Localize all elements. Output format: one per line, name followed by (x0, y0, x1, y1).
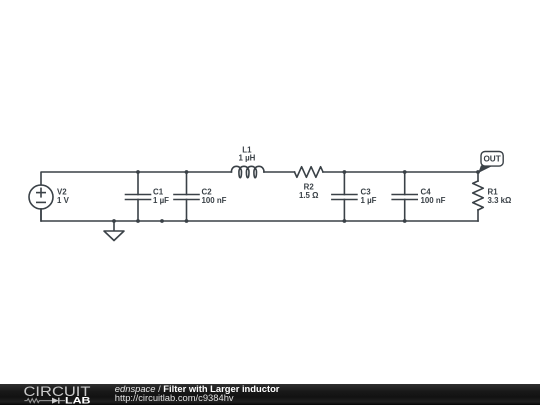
svg-text:100 nF: 100 nF (202, 196, 227, 205)
capacitor C4 (392, 172, 417, 221)
V2 minus sign (37, 201, 45, 203)
svg-text:OUT: OUT (483, 155, 500, 164)
resistor R2 zigzag (295, 167, 324, 178)
node dot C2 bottom (185, 219, 189, 223)
svg-text:100 nF: 100 nF (421, 196, 446, 205)
node dot mid bottom (160, 219, 164, 223)
svg-text:LAB: LAB (65, 395, 91, 405)
svg-text:3.3 kΩ: 3.3 kΩ (488, 196, 512, 205)
ground symbol (104, 221, 124, 241)
capacitor C3 (332, 172, 357, 221)
junction dots (112, 170, 480, 223)
footer logo diode (52, 398, 59, 404)
wire bottom rail (41, 209, 478, 221)
footer logo resistor zigzag (24, 399, 52, 403)
wire: R2 to OUT node and down to R1 (323, 172, 478, 181)
voltage source V2 circle (29, 185, 53, 209)
svg-text:1 V: 1 V (57, 196, 70, 205)
component labels (57, 146, 511, 206)
node dot C4 top (403, 170, 407, 174)
svg-text:C4: C4 (421, 188, 432, 197)
capacitor C2 (174, 172, 199, 221)
OUT flag (478, 152, 503, 174)
svg-text:R2: R2 (304, 183, 315, 192)
node dot C3 bottom (343, 219, 347, 223)
svg-text:C2: C2 (202, 188, 213, 197)
resistor R1 zigzag (473, 181, 484, 210)
node dot C2 top (185, 170, 189, 174)
svg-text:1 µH: 1 µH (238, 154, 255, 163)
node dot ground (112, 219, 116, 223)
wire: R1 bottom lead (477, 210, 479, 221)
inductor L1 coil (231, 166, 264, 178)
svg-text:1 µF: 1 µF (361, 196, 377, 205)
wire V2 bottom stem (40, 209, 42, 221)
svg-text:1 µF: 1 µF (153, 196, 169, 205)
node dot C1 top (136, 170, 140, 174)
node dot C4 bottom (403, 219, 407, 223)
wire: L1 to R2 (264, 171, 295, 173)
svg-text:V2: V2 (57, 188, 67, 197)
footer bar (0, 384, 540, 405)
svg-text:C1: C1 (153, 188, 164, 197)
node dot C3 top (343, 170, 347, 174)
svg-text:C3: C3 (361, 188, 372, 197)
svg-text:R1: R1 (488, 188, 499, 197)
svg-text:1.5 Ω: 1.5 Ω (299, 191, 319, 200)
V2 plus sign (37, 192, 45, 194)
node dot C1 bottom (136, 219, 140, 223)
capacitor C1 (126, 172, 151, 221)
node dot OUT (476, 170, 480, 174)
wire top: V2 to L1 (41, 172, 231, 185)
svg-text:http://circuitlab.com/c9384hv: http://circuitlab.com/c9384hv (115, 392, 234, 403)
